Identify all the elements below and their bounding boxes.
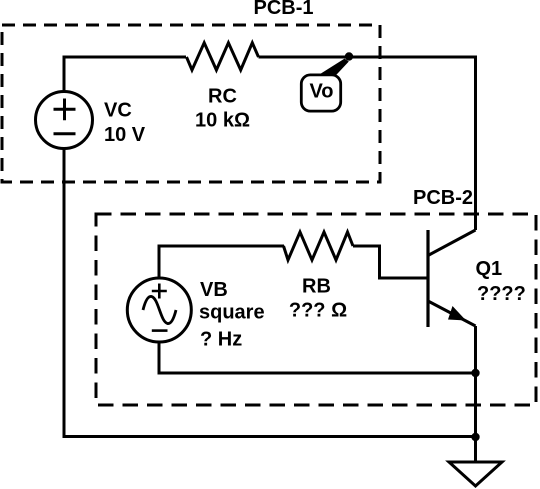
- svg-text:RB: RB: [302, 276, 331, 298]
- voltage source VB: [127, 278, 191, 342]
- svg-text:10 kΩ: 10 kΩ: [195, 110, 250, 132]
- svg-text:10 V: 10 V: [104, 124, 146, 146]
- VC value label: [104, 100, 146, 147]
- PCB-2 label: [413, 187, 473, 209]
- node Vo pointer wedge: [320, 59, 349, 75]
- svg-text:??? Ω: ??? Ω: [289, 300, 347, 322]
- wire RC to collector corner: [259, 57, 476, 230]
- svg-text:Q1: Q1: [476, 258, 503, 280]
- svg-text:RC: RC: [208, 86, 237, 108]
- wire VC bottom rail: [64, 149, 476, 437]
- PCB-1 boundary: [2, 25, 380, 182]
- resistor RC: [187, 43, 259, 70]
- junction dot emitter/VB return: [471, 369, 479, 377]
- PCB-2 boundary: [96, 214, 536, 405]
- svg-text:? Hz: ? Hz: [200, 329, 242, 351]
- RC label: [195, 86, 250, 132]
- svg-text:????: ????: [477, 283, 526, 305]
- wire emitter down to ground: [474, 326, 477, 462]
- junction dot at Vo node: [345, 52, 353, 60]
- Q1 label: [476, 258, 526, 305]
- svg-text:VC: VC: [104, 100, 132, 122]
- wire RB to base (stepped): [353, 246, 428, 278]
- PCB-1 label: [254, 0, 314, 19]
- wire VB top to RB: [159, 246, 284, 278]
- node Vo label box: [301, 75, 340, 111]
- svg-text:square: square: [199, 302, 265, 324]
- svg-text:Vo: Vo: [309, 81, 333, 103]
- svg-text:PCB-1: PCB-1: [254, 0, 314, 19]
- wire VB bottom to emitter node: [159, 342, 476, 373]
- svg-text:PCB-2: PCB-2: [413, 187, 473, 209]
- RB label: [289, 276, 347, 322]
- svg-text:VB: VB: [200, 279, 228, 301]
- resistor RB: [284, 232, 354, 260]
- junction dot bottom rail: [471, 433, 479, 441]
- voltage source VC: [36, 92, 93, 149]
- transistor Q1: [428, 230, 476, 327]
- wire VC top to RC: [64, 57, 186, 92]
- VB value label: [199, 279, 265, 351]
- ground: [449, 462, 502, 486]
